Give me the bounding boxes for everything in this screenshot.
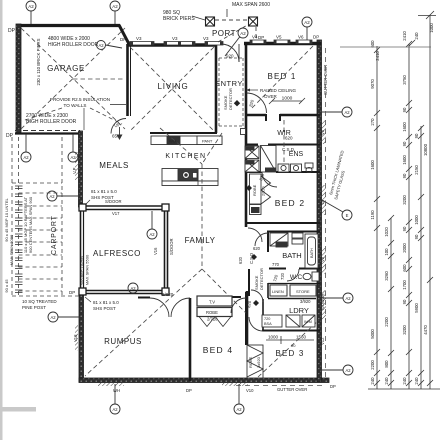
window sills living top wall (130, 42, 223, 46)
svg-text:ROBE: ROBE (252, 184, 257, 196)
dim 1000 raised ceiling (269, 98, 305, 104)
entry door arc + 920 (221, 44, 239, 62)
svg-text:CARPORT: CARPORT (51, 215, 58, 255)
svg-text:A2: A2 (130, 286, 136, 291)
svg-text:MAX SPAN 3000: MAX SPAN 3000 (9, 234, 14, 265)
porch pier NW (206, 17, 215, 26)
svg-text:C.S.D: C.S.D (249, 253, 254, 264)
svg-text:A2: A2 (149, 232, 155, 237)
svg-text:2410: 2410 (375, 51, 380, 61)
svg-text:1000: 1000 (282, 96, 293, 102)
entry dashed ceiling (219, 58, 243, 126)
svg-text:DP: DP (8, 28, 16, 34)
roller door jambs + circles (21, 134, 78, 162)
svg-text:STORE: STORE (296, 289, 310, 294)
dimension line B x=409 (406, 41, 412, 389)
smoke detector diamond entry (234, 100, 240, 106)
svg-text:V3: V3 (136, 36, 142, 41)
svg-text:RAISED CEILING: RAISED CEILING (260, 88, 297, 93)
svg-text:3260: 3260 (384, 271, 389, 281)
wc toilet (303, 272, 319, 281)
svg-text:PROVIDE R2.5 INSULATION: PROVIDE R2.5 INSULATION (50, 97, 110, 102)
dashed ridge kitchen-family (85, 128, 249, 376)
svg-text:800: 800 (384, 360, 389, 368)
svg-text:9070: 9070 (370, 79, 375, 89)
svg-text:90: 90 (402, 299, 407, 304)
svg-text:FAMILY: FAMILY (185, 236, 216, 245)
wall: bed2 bottom (246, 222, 320, 224)
svg-text:81 x 81 x 5.0: 81 x 81 x 5.0 (91, 189, 117, 194)
svg-text:3200: 3200 (402, 325, 407, 335)
svg-text:A2: A2 (236, 407, 242, 412)
svg-text:DP: DP (258, 35, 264, 40)
svg-text:240: 240 (414, 32, 419, 40)
marker circle A at porch label (225, 28, 248, 56)
ldr door arc (249, 317, 263, 331)
svg-text:100: 100 (384, 248, 389, 256)
svg-text:A2: A2 (23, 155, 29, 160)
svg-text:600: 600 (370, 40, 375, 48)
svg-text:BRICK PIERS: BRICK PIERS (163, 16, 195, 22)
svg-text:V10: V10 (246, 388, 254, 393)
svg-text:A2: A2 (50, 315, 56, 320)
niche box hall (241, 129, 246, 135)
porch pier NE (249, 17, 258, 26)
svg-text:HIGH ROLLER DOOR: HIGH ROLLER DOOR (48, 42, 99, 48)
wall: living west (126, 44, 129, 116)
wall: family/bed4 north (138, 297, 150, 299)
svg-text:2410: 2410 (402, 31, 407, 41)
ldr bench 720 BSA (262, 315, 282, 327)
marker circle right mid (322, 293, 353, 303)
svg-text:240: 240 (414, 377, 419, 385)
wall: kitchen back (living bottom) (150, 132, 217, 134)
svg-text:240: 240 (370, 377, 375, 385)
ENS fixtures (245, 146, 313, 173)
svg-text:GARAGE: GARAGE (47, 64, 85, 73)
linen box (270, 285, 287, 296)
svg-text:820: 820 (246, 300, 252, 308)
svg-text:3200: 3200 (402, 195, 407, 205)
svg-text:2200: 2200 (370, 360, 375, 370)
svg-text:ROBE: ROBE (206, 310, 218, 315)
svg-text:620: 620 (238, 256, 243, 264)
svg-text:770: 770 (272, 262, 280, 267)
wall: bath bottom / wc (269, 268, 286, 270)
svg-text:A2: A2 (112, 407, 118, 412)
svg-text:10 SQ TREATED: 10 SQ TREATED (22, 299, 57, 304)
marker circle bottom-mid (234, 384, 244, 414)
svg-text:WH: WH (113, 388, 120, 393)
svg-text:DP: DP (6, 133, 14, 139)
svg-text:T.V: T.V (209, 300, 215, 305)
svg-text:DETECTOR: DETECTOR (228, 88, 233, 110)
carport dashed outline (12, 137, 80, 296)
wall: WIR top (246, 114, 266, 117)
svg-text:2150: 2150 (414, 165, 419, 175)
svg-text:1560: 1560 (296, 335, 307, 340)
svg-text:PORT: PORT (212, 29, 236, 38)
svg-text:ALFRESCO: ALFRESCO (93, 249, 141, 258)
svg-text:GUTTER OVER: GUTTER OVER (277, 387, 307, 392)
dimension line E x=421 (418, 125, 424, 389)
svg-text:90: 90 (402, 173, 407, 178)
wall: bed1 top (244, 42, 321, 45)
svg-text:A2: A2 (304, 20, 310, 25)
svg-text:V16: V16 (153, 247, 158, 255)
wall: living east / entry west (215, 44, 218, 133)
window sills bed1 top wall (250, 40, 312, 44)
extension line top y47 (340, 46, 431, 48)
marker circle rumpus post (48, 312, 80, 322)
kitchen cabinets top row (151, 136, 222, 145)
svg-text:TO WALLS: TO WALLS (64, 103, 87, 108)
svg-text:4470: 4470 (423, 325, 428, 335)
porch dashed outline (208, 20, 256, 42)
wall: hall west (bath wing) (267, 231, 269, 252)
svg-text:BATH: BATH (310, 248, 314, 258)
svg-text:1600: 1600 (402, 122, 407, 132)
marker circle A top-left (26, 1, 36, 24)
svg-text:RUMPUS: RUMPUS (104, 337, 142, 346)
svg-text:DP: DP (186, 388, 192, 393)
svg-text:OVER: OVER (264, 94, 278, 99)
svg-text:V6: V6 (298, 35, 304, 40)
wall: alfresco east (164, 206, 166, 292)
meals window marker (47, 191, 79, 201)
wall: garage top (17, 24, 120, 27)
svg-text:81 x 81 x 5.0: 81 x 81 x 5.0 (93, 300, 119, 305)
svg-text:1000: 1000 (429, 23, 434, 33)
wall: alfresco bottom (80, 290, 167, 292)
svg-text:5900: 5900 (414, 303, 419, 313)
svg-text:E: E (346, 213, 349, 218)
svg-text:V17: V17 (112, 211, 120, 216)
washing machine (302, 315, 315, 327)
svg-text:MAX SPAN 2600: MAX SPAN 2600 (232, 2, 270, 8)
bed4 door arc (231, 298, 246, 313)
svg-text:A2: A2 (345, 368, 351, 373)
svg-text:720: 720 (272, 274, 279, 283)
dims 1000 1560 bed3 (266, 336, 314, 344)
marker circle right bottom (322, 365, 353, 375)
wall: alfresco west (80, 207, 82, 292)
svg-text:V3: V3 (172, 36, 178, 41)
wall: linen/store row (267, 283, 269, 298)
svg-text:MEALS: MEALS (99, 161, 129, 170)
svg-text:DP: DP (69, 290, 75, 295)
wall: WIR/ENS divider (246, 144, 258, 146)
dim labels line C (414, 23, 434, 335)
robe unit bed4 (197, 308, 232, 317)
wall: ENS bottom / bed2 top (246, 171, 262, 173)
svg-text:W.C: W.C (290, 274, 303, 281)
ldr trough (286, 315, 300, 327)
gutter over dashed line right (325, 48, 327, 380)
dim labels line D (384, 227, 389, 385)
wall: bed4 west (rumpus divider) (189, 298, 192, 381)
svg-text:MAX SPAN 5500: MAX SPAN 5500 (85, 254, 90, 285)
svg-text:PINE POST: PINE POST (22, 305, 46, 310)
svg-text:W/M: W/M (304, 320, 312, 324)
svg-text:90: 90 (414, 234, 419, 239)
wall: garage left (brick pier band) (16, 24, 21, 134)
svg-text:BED 1: BED 1 (267, 72, 296, 81)
svg-text:V5: V5 (276, 35, 282, 40)
svg-text:1600: 1600 (402, 155, 407, 165)
svg-text:SHS POST: SHS POST (93, 306, 116, 311)
bed4 east wall (246, 291, 249, 345)
svg-text:KITCHEN: KITCHEN (165, 153, 206, 160)
bath tub (305, 234, 318, 268)
svg-text:5000: 5000 (370, 329, 375, 339)
left margin ladder marks (15, 186, 23, 293)
svg-text:UP: UP (114, 122, 121, 129)
svg-text:A2: A2 (345, 296, 351, 301)
svg-text:90: 90 (402, 226, 407, 231)
svg-text:90: 90 (402, 107, 407, 112)
window hatch meals west (75, 152, 78, 180)
svg-text:A2: A2 (28, 4, 34, 9)
svg-text:2/920: 2/920 (262, 186, 266, 196)
svg-text:DETECTOR: DETECTOR (259, 268, 264, 290)
svg-text:V3: V3 (203, 36, 209, 41)
svg-text:ROBE: ROBE (248, 356, 253, 368)
marker circle bottom-left (110, 384, 120, 414)
svg-text:V4: V4 (252, 35, 258, 40)
svg-text:BED 3: BED 3 (275, 349, 304, 358)
svg-text:720: 720 (264, 317, 270, 321)
svg-text:LDRY: LDRY (289, 306, 309, 315)
svg-text:HIGH ROLLER DOOR: HIGH ROLLER DOOR (26, 119, 77, 125)
svg-text:1190: 1190 (370, 210, 375, 220)
svg-text:WIR: WIR (277, 130, 291, 137)
svg-text:LIVING: LIVING (157, 82, 188, 91)
svg-text:ENTRY: ENTRY (215, 79, 243, 88)
gutter over dashed line bottom (236, 385, 326, 387)
robe door triangles bed4 (199, 317, 231, 327)
svg-text:90: 90 (402, 141, 407, 146)
scan edge artifacts (0, 0, 3, 440)
wall: wing west corridor (245, 115, 248, 227)
marker circle right y112 (322, 107, 352, 117)
wall: hall west lower (248, 269, 250, 296)
svg-text:V12: V12 (320, 337, 325, 345)
wall: ldr south (262, 330, 320, 332)
bed1 door arc 820 (247, 93, 267, 113)
svg-text:620: 620 (253, 246, 261, 251)
svg-text:1000: 1000 (268, 335, 279, 340)
window hatch rumpus west (75, 325, 78, 351)
wall: right outer (317, 40, 322, 382)
svg-text:A2: A2 (240, 31, 246, 36)
svg-text:PANT: PANT (202, 139, 213, 144)
smoke detector diamond hall (251, 254, 257, 260)
dashed roof bed1 (252, 46, 313, 168)
wall: WIR top stubs (265, 114, 267, 121)
dimension line D x=391 (388, 215, 394, 389)
alfresco posts (79, 204, 86, 211)
wall: meals west (79, 131, 83, 207)
bed2 door arc (262, 172, 277, 187)
marker circle alfresco east (147, 211, 157, 239)
dim labels line B (402, 31, 407, 385)
svg-text:900 CENTERS MAX SPAN 900: 900 CENTERS MAX SPAN 900 (28, 196, 33, 253)
svg-text:A2: A2 (112, 4, 118, 9)
marker circle A above bed1 (302, 17, 312, 40)
svg-text:720: 720 (280, 272, 285, 280)
svg-text:DP: DP (120, 37, 126, 42)
TV unit (197, 296, 232, 306)
svg-text:240: 240 (384, 377, 389, 385)
svg-text:3/920: 3/920 (300, 299, 311, 304)
svg-text:600: 600 (402, 264, 407, 272)
marker circle alfresco south (128, 283, 138, 293)
marker circle E ens (322, 200, 352, 220)
wall: rumpus west (79, 294, 84, 382)
store box (290, 285, 316, 296)
bottom window hatches (98, 383, 124, 386)
wall: alfresco top (80, 205, 167, 207)
svg-text:2200: 2200 (384, 317, 389, 327)
svg-text:DP: DP (330, 384, 336, 389)
dashed roof X garage (21, 28, 125, 129)
wall: bath top (267, 231, 320, 233)
svg-text:1020: 1020 (384, 227, 389, 237)
wall: garage top-right chamfer (119, 25, 129, 44)
dimension line C x=430 (409, 11, 434, 389)
wall: living top (127, 43, 217, 46)
svg-text:3x920: 3x920 (256, 356, 261, 368)
svg-text:ENS: ENS (289, 151, 304, 158)
svg-text:S/DOOR: S/DOOR (169, 238, 174, 255)
bath shower (270, 233, 303, 247)
dim labels line A (370, 40, 380, 385)
dashed roof living (130, 47, 214, 131)
svg-text:10800: 10800 (423, 143, 428, 156)
svg-text:90: 90 (414, 133, 419, 138)
svg-text:1700: 1700 (402, 280, 407, 290)
bottom datum line (368, 388, 440, 390)
dimension line A x=377 (374, 46, 380, 389)
dashed roof bed3 diagonal (258, 320, 319, 377)
svg-text:A2: A2 (49, 194, 55, 199)
marker circle A top-mid (110, 1, 120, 24)
svg-text:A2: A2 (344, 110, 350, 115)
svg-text:BSA: BSA (264, 322, 272, 326)
wall: entry east / bed wing west (245, 43, 248, 115)
window hatches right wall (322, 120, 326, 144)
wall: bed3 west (245, 292, 247, 345)
robe zigzag bed3 (247, 345, 263, 378)
svg-text:LINEN: LINEN (272, 289, 284, 294)
smoke detector diamond bed wing (246, 185, 252, 191)
svg-text:1000: 1000 (414, 215, 419, 225)
wall: garage bottom (15, 130, 80, 132)
svg-text:BED 2: BED 2 (275, 198, 306, 208)
svg-text:BATH: BATH (282, 251, 301, 260)
dim labels line E (414, 133, 419, 385)
svg-text:BED 4: BED 4 (203, 345, 234, 355)
kitchen island (162, 169, 218, 186)
svg-text:A2: A2 (98, 43, 104, 48)
family-rumpus door arcs (150, 298, 190, 317)
svg-text:2000: 2000 (402, 243, 407, 253)
bed2 robe boxes (250, 174, 271, 215)
leader to circle A in garage (97, 41, 123, 50)
svg-text:WO: WO (169, 139, 176, 144)
svg-text:1600: 1600 (370, 160, 375, 170)
wall: bottom outer (79, 378, 329, 383)
svg-text:DP: DP (313, 35, 319, 40)
svg-text:S/DOOR: S/DOOR (105, 199, 122, 204)
svg-text:2/820: 2/820 (162, 292, 174, 297)
svg-text:3750: 3750 (402, 75, 407, 85)
svg-text:90 x 45: 90 x 45 (4, 279, 9, 293)
svg-text:240: 240 (402, 377, 407, 385)
hall door arcs near bath (248, 228, 299, 281)
wall: ldry west (262, 299, 264, 331)
svg-text:270: 270 (370, 118, 375, 126)
